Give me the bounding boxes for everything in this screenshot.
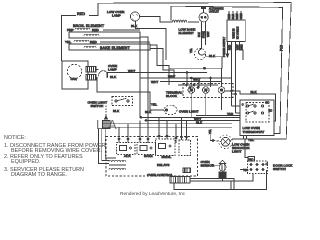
relay bake (dashed)	[137, 143, 156, 155]
svg-text:BLK: BLK	[113, 109, 120, 113]
relay broil (dashed)	[156, 139, 176, 156]
svg-text:WHT: WHT	[207, 31, 210, 37]
wires outlet down to fuse	[201, 22, 203, 49]
svg-text:WIRE IN: WIRE IN	[233, 28, 236, 38]
svg-text:DIAGRAM TO RANGE.: DIAGRAM TO RANGE.	[11, 172, 67, 178]
notice text block	[4, 135, 106, 178]
svg-text:RED: RED	[229, 44, 232, 50]
svg-text:FUSE: FUSE	[203, 31, 206, 38]
wires relay feeds from bus	[118, 127, 120, 142]
bus wire y81.5	[160, 81, 221, 83]
wires terminals down	[190, 93, 192, 117]
wire oven lamp to bus	[96, 69, 99, 71]
svg-text:OVEN LIGHT: OVEN LIGHT	[179, 110, 199, 114]
outlet alternate outlet	[201, 7, 206, 9]
svg-text:NC: NC	[244, 168, 249, 172]
svg-text:POWER SUPPLY: POWER SUPPLY	[223, 37, 226, 57]
wire under lamp going right	[96, 78, 164, 111]
terminal N	[203, 87, 210, 94]
fan box	[62, 61, 88, 89]
wires into terminal block from buses	[186, 73, 188, 86]
svg-text:AUX: AUX	[124, 154, 131, 158]
svg-text:BROIL ELEMENT: BROIL ELEMENT	[73, 24, 105, 28]
wires from light connector down to control	[98, 129, 109, 164]
wire thermostat to door lock NO	[245, 139, 248, 158]
svg-text:YEL: YEL	[190, 48, 193, 53]
svg-text:RED: RED	[77, 12, 85, 16]
svg-text:RED: RED	[92, 28, 99, 32]
wires thermostat left	[232, 105, 241, 107]
bus wire y115.5 TAN	[196, 115, 240, 117]
connector control board small	[183, 168, 190, 173]
junction dots before terminal block	[186, 84, 188, 86]
door lock switch	[248, 157, 255, 162]
wire inner loop (top feed to low bake element, right side)	[171, 6, 283, 133]
svg-text:OUTLET: OUTLET	[209, 11, 219, 14]
svg-text:ELEMENT: ELEMENT	[179, 31, 194, 35]
wire indicator right	[230, 139, 232, 142]
wire from low oven lamp down	[136, 21, 167, 60]
bus wire y68.3	[169, 67, 222, 69]
svg-text:BX CABLE: BX CABLE	[237, 26, 240, 39]
broil element box	[69, 32, 140, 38]
wires into power box top	[228, 11, 230, 20]
svg-text:NC: NC	[269, 110, 273, 113]
terminal L2	[218, 87, 225, 94]
wire coil to outlet	[188, 21, 199, 23]
watermark ghost	[96, 117, 117, 132]
transformer	[109, 160, 126, 161]
bus wire y120.4	[145, 119, 240, 121]
power supply cable box	[227, 20, 245, 41]
svg-text:GRN: GRN	[240, 13, 243, 19]
svg-text:C: C	[242, 104, 244, 107]
svg-text:BLK: BLK	[110, 75, 117, 79]
svg-text:FAN: FAN	[71, 77, 77, 81]
terminal L1	[188, 87, 195, 94]
low oven thermostat box	[240, 100, 274, 136]
svg-text:GRN: GRN	[241, 44, 244, 50]
oven control dashed box	[106, 137, 198, 177]
svg-text:P13: P13	[280, 45, 284, 51]
svg-text:RELAYS: RELAYS	[157, 163, 170, 167]
svg-text:BLK: BLK	[145, 110, 152, 114]
bus wire y123.8	[103, 123, 232, 125]
svg-text:BLK: BLK	[251, 90, 258, 94]
svg-text:SWITCH: SWITCH	[91, 104, 104, 108]
svg-text:YEL: YEL	[151, 103, 157, 107]
svg-text:RED: RED	[90, 40, 97, 44]
bus wire y117.4	[140, 116, 240, 118]
wire pilot row 2 tail	[100, 41, 150, 43]
sensor probe	[219, 160, 225, 163]
lamp oven light (dashed)	[164, 105, 177, 115]
wires connector to door lock bottom	[190, 179, 234, 190]
svg-text:THERMOSTAT: THERMOSTAT	[243, 130, 265, 134]
svg-text:BLK: BLK	[232, 14, 235, 19]
svg-text:WHT: WHT	[128, 69, 135, 73]
svg-text:SWITCH: SWITCH	[273, 167, 286, 171]
wire switch down to connector	[105, 106, 107, 120]
bake element box	[69, 44, 150, 50]
svg-text:WHT: WHT	[237, 44, 240, 50]
connector control board main	[170, 177, 190, 184]
wire labels vertical BLK FUSE WHT	[198, 31, 210, 38]
svg-text:A: A	[108, 117, 117, 132]
svg-text:WHT: WHT	[168, 75, 175, 79]
svg-text:WHT: WHT	[193, 78, 200, 82]
svg-text:BROIL: BROIL	[162, 155, 172, 159]
resistor low bake element coil	[172, 20, 187, 23]
svg-text:NOTICE:: NOTICE:	[4, 135, 26, 141]
svg-text:BLK: BLK	[196, 120, 203, 124]
wire from broil box to drop 1	[139, 33, 141, 117]
wire to terminal L2	[221, 68, 223, 86]
relay spare (dashed)	[179, 140, 190, 156]
wire sensor left contact	[212, 164, 214, 166]
connector fan plug 2	[86, 75, 96, 81]
connector light harness	[103, 121, 111, 129]
lamp low oven indicator	[219, 135, 233, 149]
wire terminal L2 right to border	[225, 91, 276, 121]
svg-text:PNP: PNP	[67, 28, 74, 32]
wire drop 2	[140, 37, 148, 120]
svg-text:LAMP: LAMP	[108, 68, 117, 72]
svg-text:BLOCK: BLOCK	[166, 94, 178, 98]
relay aux (dashed)	[117, 143, 136, 155]
svg-text:YEL: YEL	[65, 40, 71, 44]
svg-text:WHT: WHT	[236, 13, 239, 19]
svg-text:TAN: TAN	[227, 112, 233, 116]
switch contacts (dashed box)	[112, 97, 133, 106]
svg-text:LIGHT: LIGHT	[232, 150, 242, 154]
bus wire y84.9	[178, 84, 218, 86]
svg-text:Rendered by LeadVenture, Inc: Rendered by LeadVenture, Inc	[120, 191, 186, 197]
svg-text:BAKE: BAKE	[144, 154, 153, 158]
fuse oven fuse	[194, 48, 205, 59]
svg-text:OVEN CONTROL: OVEN CONTROL	[147, 173, 173, 177]
wire pilot row 1 tail	[103, 29, 140, 31]
wire sensor bottom	[190, 178, 223, 181]
wire fuse to right then terminal	[206, 57, 222, 69]
wires out of power box bottom	[227, 41, 229, 57]
svg-text:LAMP: LAMP	[112, 14, 121, 18]
wire lamp right to coil	[140, 17, 172, 23]
svg-text:WHT: WHT	[151, 80, 158, 84]
svg-text:BLK: BLK	[131, 24, 138, 28]
terminal block dashed box	[183, 84, 233, 98]
wire drop 4	[150, 49, 174, 79]
svg-text:L: L	[96, 117, 103, 132]
wire drop 3	[150, 45, 169, 85]
svg-text:EQUIPPED.: EQUIPPED.	[11, 159, 40, 165]
svg-text:YEL: YEL	[209, 129, 212, 134]
wire outer loop (RED supply loop around diagram)	[62, 16, 77, 62]
svg-text:BLK: BLK	[198, 32, 201, 37]
svg-text:YEL: YEL	[248, 138, 254, 142]
motor fan (dashed circle)	[67, 64, 81, 78]
wires thermostat bottom	[243, 136, 245, 140]
connector fan plug 1	[86, 67, 96, 73]
svg-text:RED: RED	[228, 13, 231, 19]
wire NC left stub	[240, 169, 248, 171]
svg-text:BAKE ELEMENT: BAKE ELEMENT	[100, 46, 131, 50]
bus wire WHT y72.5	[118, 72, 207, 74]
svg-text:NO: NO	[266, 102, 270, 105]
bus wire y78	[140, 77, 232, 79]
bus wire y127.2	[103, 126, 232, 128]
